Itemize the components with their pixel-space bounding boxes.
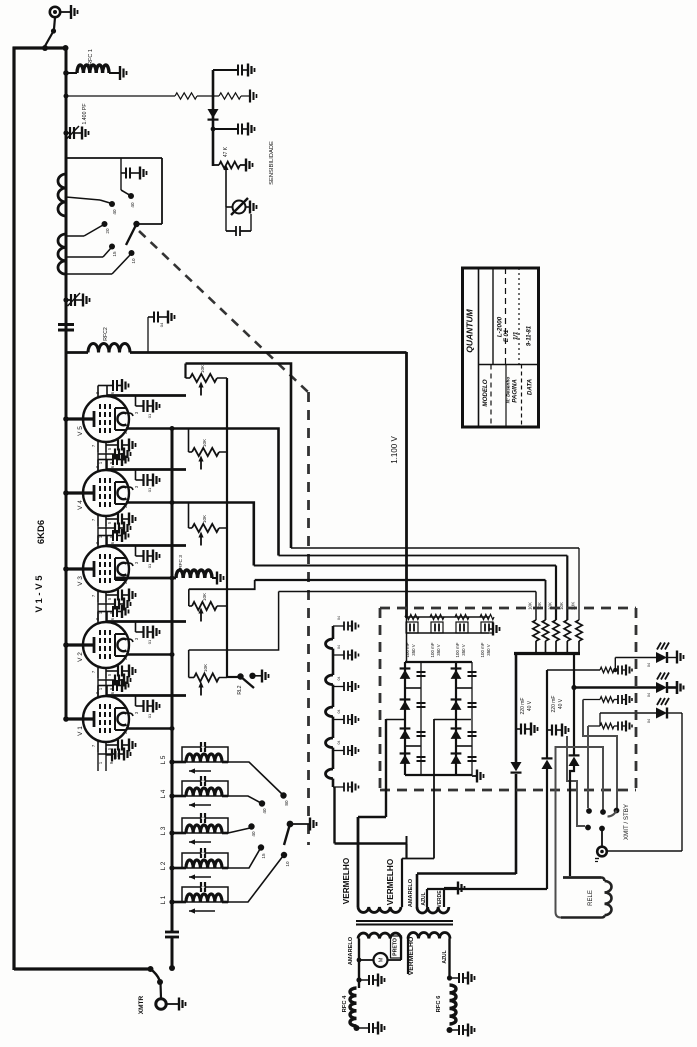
svg-text:RFC 1: RFC 1 xyxy=(88,49,94,65)
inductor RFC 2 on plate feed xyxy=(66,351,88,354)
cathode lead V 4 from bus xyxy=(66,491,70,494)
variable capacitor C-load xyxy=(63,297,68,302)
svg-text:L 4: L 4 xyxy=(160,789,167,798)
ground after metering resistors xyxy=(249,90,251,103)
svg-text:L 3: L 3 xyxy=(160,826,167,835)
svg-text:QUANTUM: QUANTUM xyxy=(465,308,475,352)
wire bridge mid tap right xyxy=(434,719,471,721)
wire sensitivity vertical bus x=213 xyxy=(212,70,215,166)
wire tap x=434 down xyxy=(433,719,435,859)
capacitor 220mF #2 xyxy=(547,729,552,731)
capacitor C-blk series blocking xyxy=(58,323,74,326)
resistor R-met2 xyxy=(219,93,241,99)
svg-text:RFC 4: RFC 4 xyxy=(342,995,348,1013)
tube V 4 pin capacitors and grounds xyxy=(91,453,204,545)
wire coil tap 20 xyxy=(66,235,84,237)
inductor RFC 4 xyxy=(350,988,356,1026)
svg-text:10K: 10K xyxy=(202,514,207,523)
resistor 10K bank 4 xyxy=(542,620,548,641)
svg-text:V 5: V 5 xyxy=(77,426,84,436)
resistor 10K bank 3 xyxy=(553,620,559,641)
svg-text:RL2: RL2 xyxy=(237,685,243,694)
svg-text:6KD6: 6KD6 xyxy=(36,520,47,544)
svg-text:VERMELHO: VERMELHO xyxy=(386,858,395,905)
diode D-low1 xyxy=(511,762,522,771)
wire HV feed line y=352 to 1.100V drop xyxy=(130,351,407,354)
wire bridge cell ticks x=405 xyxy=(405,687,421,689)
svg-text:04: 04 xyxy=(159,322,164,327)
wire AZUL riser xyxy=(426,889,428,907)
tank coil L 5 with trimmer xyxy=(182,747,228,762)
svg-text:350 V: 350 V xyxy=(486,644,491,656)
tuning arrow L 3 xyxy=(189,841,211,843)
RC filter unit 1 100mF 350V xyxy=(405,614,419,619)
ground at XMTR xyxy=(167,1003,180,1005)
node junction left xyxy=(42,45,48,51)
tank coil L 2 with trimmer xyxy=(182,853,228,868)
capacitor at RFC4 bottom xyxy=(357,1027,370,1029)
resistor R-met1 xyxy=(175,93,197,99)
inductor L-tank tapped coil lower xyxy=(58,234,66,274)
connector XMTR jack xyxy=(156,999,166,1009)
resistor R-led1 xyxy=(600,667,614,673)
rectifier diode column x=405 xyxy=(404,662,406,775)
svg-text:1/1: 1/1 xyxy=(514,331,520,340)
wire contact to XMIT jack xyxy=(601,829,603,846)
diode D-low3 xyxy=(569,757,580,766)
wire LED3 feed xyxy=(600,712,656,714)
wire LED2 feed thick xyxy=(571,685,576,690)
wire metering line y=96 xyxy=(64,94,69,99)
ground cap bank xyxy=(489,628,493,630)
svg-text:AZUL: AZUL xyxy=(421,892,427,905)
inductor RFC 3 xyxy=(176,570,212,578)
svg-text:10K: 10K xyxy=(528,602,533,610)
wire AMARELO B-left riser xyxy=(416,874,419,907)
node switch contact 40b xyxy=(128,193,134,199)
resistor 10K grid V 5 xyxy=(184,364,186,379)
svg-text:V 3: V 3 xyxy=(77,576,84,586)
svg-text:1.400 PF: 1.400 PF xyxy=(82,103,88,124)
tank coil L 4 with trimmer xyxy=(182,781,228,796)
capacitor bridge 472,759 xyxy=(468,756,477,758)
wire coil tap 40 xyxy=(66,197,100,200)
svg-text:XMTR: XMTR xyxy=(138,995,145,1014)
wire plate lead V 4 to screen bus xyxy=(126,503,254,566)
wire box bottom to switch common xyxy=(137,223,162,225)
wire bridge cell ticks x=456 xyxy=(456,687,472,689)
svg-text:V 1: V 1 xyxy=(77,726,84,736)
resistor R-s1 47K xyxy=(213,164,219,166)
svg-text:220 mF: 220 mF xyxy=(520,698,526,715)
ground at tuning cap xyxy=(81,127,83,140)
node band contact 80 xyxy=(280,792,286,798)
vacuum tube V 1 6KD6 xyxy=(70,686,133,753)
wire AZUL horizontal xyxy=(427,888,547,890)
gray wire contact feed 2 xyxy=(587,726,589,808)
wire box top y=158 xyxy=(66,157,162,159)
resistor 10K grid V 2 xyxy=(188,589,190,606)
wire left border vertical xyxy=(12,47,15,970)
tuning arrow L 5 xyxy=(189,770,211,772)
wire screen feed path V 1 xyxy=(189,592,279,651)
wire LED1 feed x=547 xyxy=(546,670,548,758)
transformer T1 HV secondary winding xyxy=(332,626,335,639)
svg-text:04: 04 xyxy=(337,741,341,745)
wire top-left horizontal xyxy=(13,46,67,49)
svg-text:04: 04 xyxy=(337,710,341,714)
resistor 10K grid V 1 xyxy=(188,650,190,678)
svg-text:47 K: 47 K xyxy=(223,146,229,157)
svg-text:10: 10 xyxy=(131,258,136,264)
RC filter unit 4 100mF 350V xyxy=(480,614,494,619)
capacitor bridge 472,734 xyxy=(468,731,477,733)
title block QUANTUM xyxy=(463,268,539,427)
HV winding taps with caps xyxy=(333,625,344,627)
wire plate lead V 1 xyxy=(126,727,172,730)
dashed mechanical link vertical x=309 xyxy=(307,392,310,845)
capacitor bridge 472,674 xyxy=(468,671,477,673)
cathode lead V 2 from bus xyxy=(66,643,70,646)
wire L5 to contact 80 xyxy=(228,762,282,794)
gray wire contact feed 1 xyxy=(583,700,617,809)
LED DS1 xyxy=(656,652,667,663)
capacitor bridge 421,734 xyxy=(417,731,426,733)
svg-text:40: 40 xyxy=(262,808,267,814)
vacuum tube V 5 6KD6 xyxy=(70,386,133,453)
capacitor C-s1 top with ground xyxy=(213,69,238,71)
cathode lead V 1 from bus xyxy=(66,717,70,720)
svg-text:20: 20 xyxy=(105,228,110,234)
capacitor C-led1 with ground xyxy=(617,666,619,675)
capacitor bridge 421,705 xyxy=(417,702,426,704)
dashed power supply enclosure box xyxy=(380,607,636,610)
cathode lead V 3 from bus xyxy=(66,567,70,570)
ground LED1 xyxy=(676,651,678,664)
relay RELE coil box xyxy=(563,876,601,879)
node band contact 40a xyxy=(259,800,265,806)
ground bridge bottom xyxy=(472,775,477,777)
svg-text:350 V: 350 V xyxy=(411,644,416,656)
wire main input bus x=66 xyxy=(65,48,68,353)
ground at meter xyxy=(249,201,251,214)
wire plate lead V 3 thick xyxy=(116,577,176,580)
ground after 47K xyxy=(245,159,247,172)
band switch arm xyxy=(284,824,290,845)
wire box right edge xyxy=(161,158,163,224)
resistor 10K bank 2 xyxy=(564,620,570,641)
node band switch common xyxy=(287,821,294,828)
ground below V1 heater xyxy=(105,748,107,755)
svg-text:V 1 - V 5: V 1 - V 5 xyxy=(34,575,45,613)
vacuum tube V 2 6KD6 xyxy=(70,612,133,679)
inductor L-tank tapped coil upper xyxy=(58,174,66,216)
wire coil tap 15 xyxy=(66,256,103,258)
ground at antenna xyxy=(61,11,72,13)
svg-text:15: 15 xyxy=(112,251,117,257)
gray wire contact to relay coil xyxy=(556,747,604,918)
vacuum tube V 4 6KD6 xyxy=(70,460,133,527)
wire LED1 branch xyxy=(547,669,600,671)
ground after RFC 3 xyxy=(216,572,218,585)
svg-text:RELE: RELE xyxy=(588,890,594,906)
ground VERDE xyxy=(457,882,459,895)
resistor 10K grid V 3 xyxy=(188,503,190,529)
wire L2 to contact 15 xyxy=(228,849,260,868)
tube V 1 pin capacitors and grounds xyxy=(91,679,204,771)
vacuum tube V 3 6KD6 xyxy=(70,536,133,603)
ground at RL2 xyxy=(261,670,263,683)
svg-text:15: 15 xyxy=(261,853,266,859)
ground LED2 xyxy=(676,681,679,694)
node tap RFC6 top xyxy=(447,975,452,980)
capacitor bridge 421,674 xyxy=(417,671,426,673)
svg-text:VERMELHO: VERMELHO xyxy=(342,857,351,904)
node junction main bus top xyxy=(63,45,69,51)
series capacitor on plate bus xyxy=(165,931,179,934)
wire cap bank top rail xyxy=(407,616,490,618)
wire drop x=516 to rectifier xyxy=(515,654,518,763)
svg-text:40 V: 40 V xyxy=(558,698,564,709)
node switch contact 10 xyxy=(129,250,135,256)
wire L3 to contact 40 xyxy=(228,828,250,833)
transformer T2 secondary winding C xyxy=(358,933,401,938)
wire secondary D left / VERMELHO lower xyxy=(407,939,409,975)
svg-text:AMARELO: AMARELO xyxy=(348,936,354,965)
svg-text:10: 10 xyxy=(285,861,290,867)
resistor 10K bank 5 xyxy=(533,620,539,641)
svg-text:80: 80 xyxy=(284,800,289,806)
capacitor bridge 472,705 xyxy=(468,702,477,704)
LED DS2 xyxy=(656,682,667,693)
node RFC6 bottom xyxy=(447,1027,453,1033)
resistor 10K grid V 4 xyxy=(188,429,190,453)
wire secondary C left / AMARELO lower xyxy=(358,939,360,989)
svg-text:RFC 3: RFC 3 xyxy=(178,555,184,569)
wire VERDE riser with ground xyxy=(443,888,445,907)
switch S-ant arm to XMTR xyxy=(148,966,154,972)
node band contact 10 xyxy=(281,852,287,858)
wire bottom border to XMTR switch xyxy=(14,967,150,970)
svg-text:04: 04 xyxy=(647,663,651,667)
tank coil L 1 with trimmer xyxy=(182,887,228,902)
wire L1 to contact 10 xyxy=(228,856,283,902)
svg-text:10K: 10K xyxy=(203,663,208,672)
svg-text:100 mF: 100 mF xyxy=(430,642,435,657)
svg-text:V 4: V 4 xyxy=(77,500,84,510)
node band contact 15 xyxy=(258,844,264,850)
svg-text:PAGINA: PAGINA xyxy=(512,379,519,403)
transformer T2 primary winding A xyxy=(358,907,401,912)
switch S1a arm from antenna xyxy=(54,18,55,30)
ground at loading cap xyxy=(82,294,84,307)
svg-text:220 mF: 220 mF xyxy=(551,696,557,713)
svg-text:40: 40 xyxy=(112,209,117,215)
node switch common S1b xyxy=(133,221,139,227)
dashed mechanical link diagonal xyxy=(139,231,308,392)
transformer T2 core xyxy=(356,920,453,922)
svg-text:M: M xyxy=(379,957,385,962)
svg-text:9-11-81: 9-11-81 xyxy=(527,325,533,346)
capacitor at RFC6 bottom xyxy=(450,1029,460,1031)
wire plate lead V 2 xyxy=(126,653,172,656)
capacitor 220mF #1 xyxy=(516,728,521,730)
inductor RFC 1 xyxy=(63,70,69,76)
svg-text:04: 04 xyxy=(337,677,341,681)
tank coil L 3 with trimmer xyxy=(182,818,228,833)
svg-text:L-2000: L-2000 xyxy=(497,316,504,337)
capacitor C-s3 bottom loop xyxy=(225,207,227,231)
wire grid bus x=66 lower xyxy=(65,353,68,719)
svg-text:XMIT / STBY: XMIT / STBY xyxy=(623,804,630,840)
tube V 3 pin capacitors and grounds xyxy=(91,529,204,621)
wire HV winding bottom to primary xyxy=(333,787,335,844)
svg-text:RFC 6: RFC 6 xyxy=(436,995,442,1013)
meter M1 sensibilidade xyxy=(225,203,227,207)
wire coil bottom to contact 10 xyxy=(66,273,112,275)
wire secondary C right / PRETO xyxy=(400,939,402,961)
wire tap x=386 down to transformer xyxy=(385,719,387,817)
transformer T2 secondary winding D xyxy=(408,933,450,939)
wire AMARELO horizontal xyxy=(417,872,516,875)
svg-text:V 2: V 2 xyxy=(77,652,84,662)
wiper arrow on 47K xyxy=(224,165,229,171)
wire plate lead V 5 to screen bus xyxy=(126,429,279,556)
meter M2 filament xyxy=(388,959,401,961)
wire 1.100V HV vertical xyxy=(405,352,408,618)
svg-text:1.100 V: 1.100 V xyxy=(390,436,399,464)
tube V 5 pin capacitors and grounds xyxy=(91,379,204,471)
cathode lead V 5 from bus xyxy=(66,417,70,420)
wire screen feed path V 2 xyxy=(189,580,255,589)
node band contact 40b xyxy=(248,823,254,829)
wire diode D-low3 to relay xyxy=(570,766,574,876)
capacitor bridge 421,759 xyxy=(417,756,426,758)
svg-text:04: 04 xyxy=(337,616,341,620)
wire plate bus x=172 xyxy=(171,428,174,932)
svg-text:40 V: 40 V xyxy=(527,700,533,711)
tube V 2 pin capacitors and grounds xyxy=(91,605,204,697)
diode D-low2 xyxy=(542,760,553,769)
connector XMIT jack xyxy=(597,847,607,857)
node switch contact 20 xyxy=(102,221,108,227)
svg-text:L 5: L 5 xyxy=(160,755,167,764)
svg-text:SENSIBILIDADE: SENSIBILIDADE xyxy=(269,141,275,185)
RC filter unit 3 100mF 350V xyxy=(455,614,469,619)
node switch contact 15 xyxy=(109,244,115,250)
wire HV distribution bus y=653 xyxy=(514,652,580,655)
diode D-s1 xyxy=(208,109,219,118)
svg-text:L 2: L 2 xyxy=(160,861,167,870)
wire LED3 return to XMIT jack xyxy=(681,713,683,851)
svg-text:E 01: E 01 xyxy=(504,329,510,342)
LED DS3 xyxy=(656,708,667,719)
svg-text:350 V: 350 V xyxy=(461,644,466,656)
resistor R-led3 branch xyxy=(588,725,600,727)
rectifier diode column x=456 xyxy=(455,662,457,775)
capacitor C-f with ground near RFC2 xyxy=(147,317,149,353)
wire L4 to contact 40 xyxy=(228,796,261,803)
svg-text:40: 40 xyxy=(130,202,135,208)
variable capacitor C-tune 1400pF xyxy=(63,130,68,135)
svg-text:AMARELO: AMARELO xyxy=(408,878,414,907)
svg-text:AZUL: AZUL xyxy=(442,950,448,963)
wire collector x=227 xyxy=(226,378,228,677)
capacitor at RFC4 top xyxy=(359,979,369,981)
svg-text:40: 40 xyxy=(251,831,256,837)
gray wire to lower-left contact xyxy=(567,736,585,826)
node bottom of plate bus xyxy=(169,965,175,971)
node RFC4 bottom xyxy=(354,1025,360,1031)
switch S1b arm xyxy=(126,224,137,245)
node tap RFC4 top xyxy=(356,977,361,982)
transformer T2 primary winding B xyxy=(417,907,449,913)
ground after RFC 1 xyxy=(119,66,121,80)
junction dots plate bus xyxy=(170,426,175,431)
wire bridge mid tap left xyxy=(386,719,405,721)
svg-text:L 1: L 1 xyxy=(160,895,167,904)
wire drop x=574 xyxy=(573,654,575,756)
relay contact RL2 xyxy=(237,673,243,679)
svg-text:MODELO: MODELO xyxy=(482,379,489,406)
wire bridge bottom rail xyxy=(405,774,472,776)
capacitor C-b1 in box with ground xyxy=(120,158,122,173)
wire bridge top rail xyxy=(405,661,472,663)
tuning arrow L 2 xyxy=(189,876,211,878)
svg-text:10K: 10K xyxy=(202,438,207,447)
capacitor at RFC6 top xyxy=(450,977,460,979)
svg-text:RFC2: RFC2 xyxy=(103,327,109,341)
wire cap bank bottom rail xyxy=(407,632,490,634)
capacitor C-s2 with ground xyxy=(211,127,216,132)
svg-text:VERMELHO: VERMELHO xyxy=(408,937,415,976)
resistor 10K bank 1 xyxy=(576,620,582,641)
resistor R-led2 branch xyxy=(583,699,600,701)
HV winding bottom cap xyxy=(333,786,344,788)
XMIT/STBY contacts xyxy=(586,808,592,814)
tuning arrow L 1 xyxy=(189,910,215,912)
svg-text:10K: 10K xyxy=(202,592,207,601)
svg-text:PRETO: PRETO xyxy=(393,938,399,956)
ground at band switch common xyxy=(292,823,310,825)
svg-text:04: 04 xyxy=(647,693,651,697)
svg-text:VERDE: VERDE xyxy=(437,890,443,908)
antenna connector J1 xyxy=(50,7,60,17)
wire secondary D right / AZUL lower xyxy=(448,939,450,978)
svg-text:100 mF: 100 mF xyxy=(480,642,485,657)
svg-text:100 mF: 100 mF xyxy=(455,642,460,657)
node switch contact 40a xyxy=(109,201,115,207)
tuning arrow L 4 xyxy=(189,804,211,806)
wire screen feed path V 5 xyxy=(186,364,292,549)
svg-text:10K: 10K xyxy=(200,364,205,373)
label PRETO with box xyxy=(391,936,402,958)
inductor RFC 6 xyxy=(450,985,457,1024)
svg-text:04: 04 xyxy=(647,719,651,723)
svg-text:DATA: DATA xyxy=(527,378,534,395)
svg-text:350 V: 350 V xyxy=(436,644,441,656)
RC filter unit 2 100mF 350V xyxy=(430,614,444,619)
svg-text:04: 04 xyxy=(337,645,341,649)
